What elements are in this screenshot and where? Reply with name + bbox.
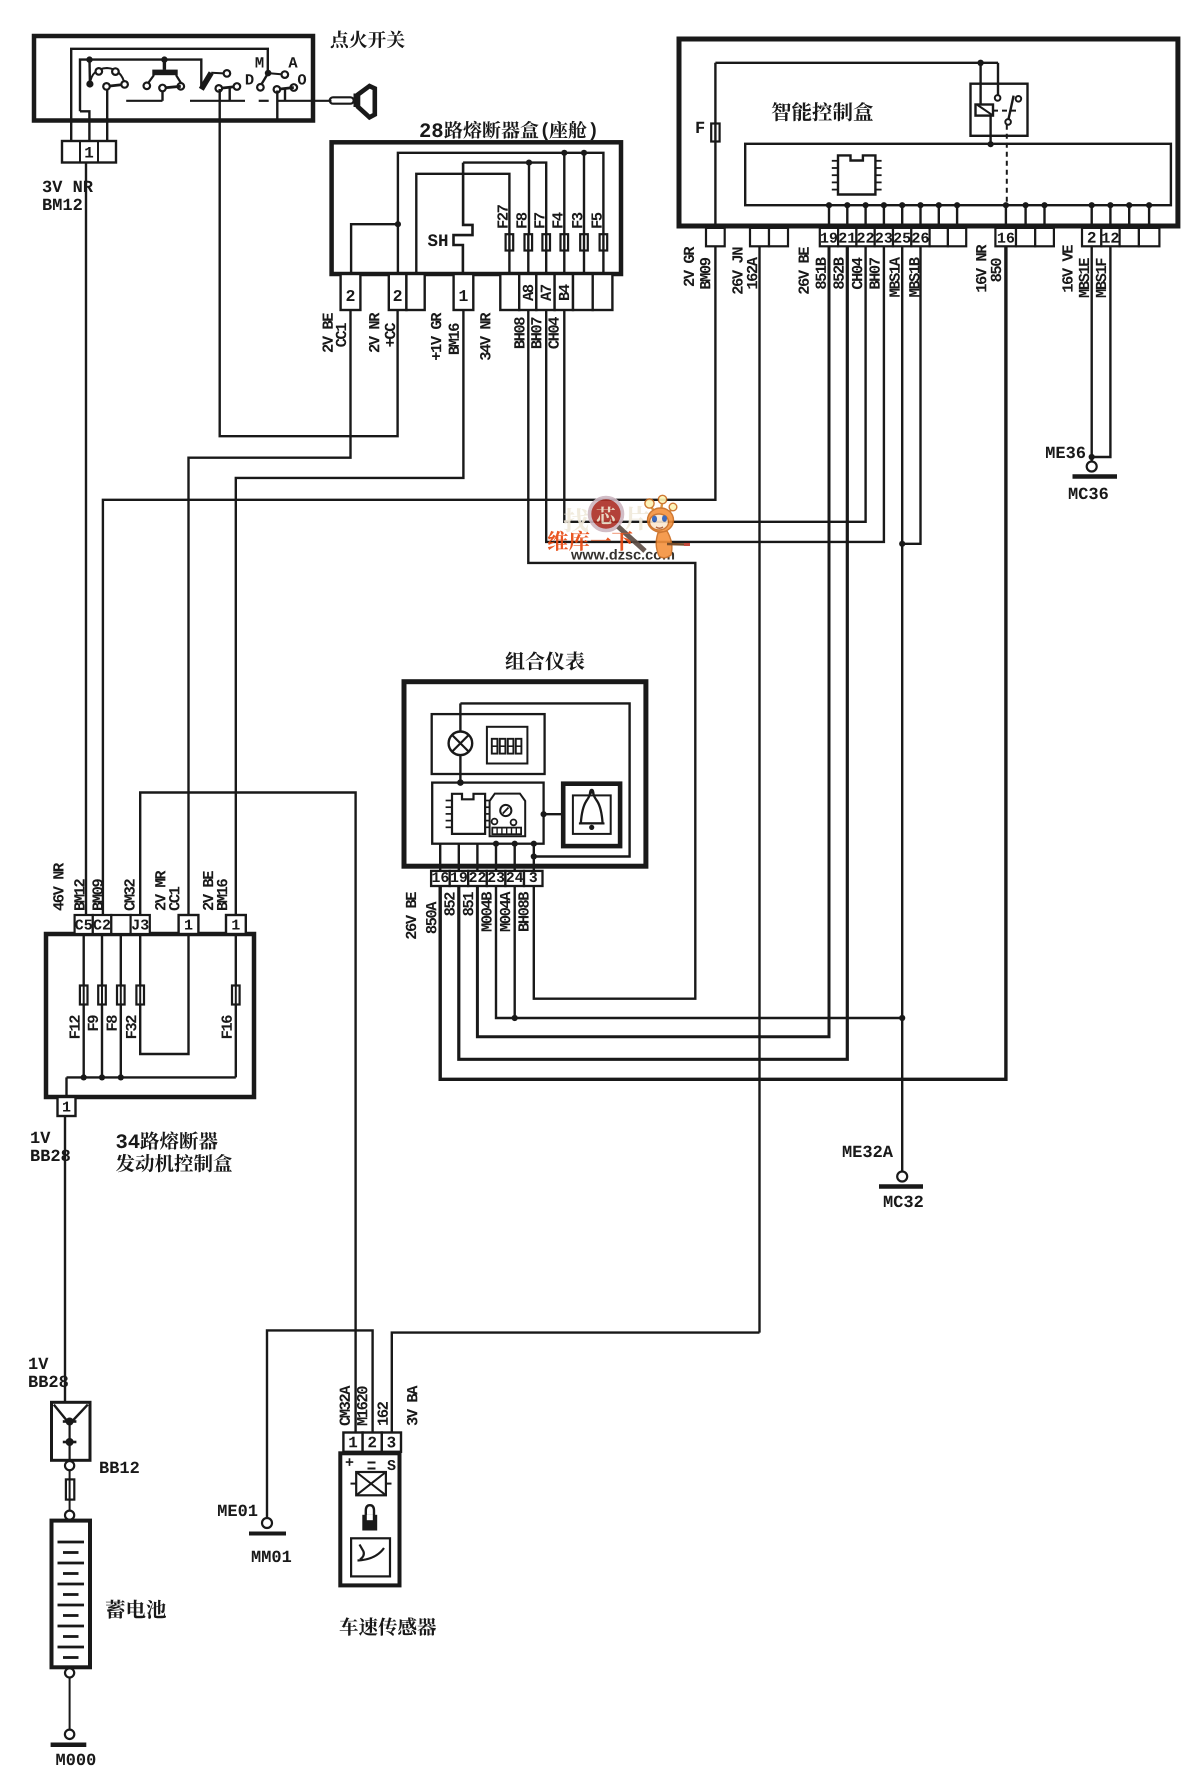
labels M A D O [256,57,264,67]
node MBS1A junction at ground lead [899,1015,905,1021]
wire ME01 to sensor pin 2 [267,1330,373,1517]
label 点火开关 [331,31,348,49]
fuse F8 [527,234,529,274]
ground ME36 [1087,462,1097,472]
node battery top [65,1511,74,1520]
wire switch S4 contact to box frame [276,91,278,121]
watermark dzsc logo [548,495,690,559]
battery [52,1521,91,1668]
pin label B4 [559,284,569,300]
wire 850A cluster to smart box 850 [440,246,1006,1079]
wire 34box BM16 to fuse F16 [235,934,237,986]
node MBS1E MBS1F junction [1089,454,1095,460]
connector pins 19 21 22 23 25 26 of smart box [820,228,838,246]
label 16V VE / MBS1E / MBS1F [1062,245,1073,292]
fuse F16 [235,986,237,1005]
fuse F3 [583,234,585,274]
fuse main [69,1470,71,1510]
wire bus to bottom pin 1 [65,1077,67,1097]
label 组合仪表 [506,652,525,670]
labels below cluster [406,892,417,939]
wire F4 drop [563,153,565,234]
fuse F7 [545,234,547,274]
node relay coil tap [977,60,983,66]
node F3 tap [581,150,587,156]
wire 852 cluster to smart box 852B [459,246,848,1059]
wire 28box internal CC1 branch [351,224,398,274]
cluster upper module box [432,714,545,774]
34-way fuse box / engine control box [46,934,254,1097]
connector bottom pin 1 of 34box [58,1097,76,1116]
fuse F9 [101,986,103,1005]
connector pin 1 CC1 of 34box [179,915,199,934]
ground ME01 [262,1518,272,1528]
switch S4 M-A-D-O [265,70,272,77]
wire CM32 34-way J3 to speed sensor pin 1 [140,793,355,1433]
node F4 tap [561,150,567,156]
connector pin 1 BM16 of 28box [454,274,474,310]
connector pin BM09 of smart box [706,228,725,246]
28-way fuse box (cabin) [332,142,621,274]
ground M000 [65,1730,74,1739]
label MBS1A [889,257,900,297]
relay K1 [971,84,1028,136]
node gauge outputs [493,841,499,847]
IC U1 of smart box [838,155,875,194]
node F8 tap [526,160,532,166]
wire 34box bottom bus [67,1076,236,1078]
label +1V GR / BM16 [431,313,442,361]
wire F3 drop [583,153,585,234]
speedometer symbol [490,794,526,837]
wire BM09 smart box to 34-way box [103,246,716,915]
labels above 34box [53,863,64,911]
bell symbol [581,793,603,824]
connector pin group A8 A7 B4 of 28box [500,274,519,310]
label CH04 [548,317,559,349]
wire M004B M004A cluster to ground net [496,886,902,1018]
instrument cluster (zu he yi biao) [404,682,646,867]
fuse F8 [120,986,122,1005]
wire cluster pins internal [439,844,441,871]
wire 162A smart box to speed sensor pin 3 [758,246,760,1332]
bell / buzzer box [563,784,620,846]
label 智能控制盒 [772,102,791,121]
label 1V BB28 lower [29,1358,37,1369]
label 2V BE / CC1 [322,313,332,352]
fuse F27 [508,234,510,274]
wire F32 loop to CC1 pin [140,934,188,1054]
connector pin 2 +CC of 28box [389,274,407,310]
wire switch S1 output to connector pin right [106,90,108,142]
label 26V JN / 162A [732,248,743,294]
wire coil feed [979,63,981,105]
switch S1 contacts [86,56,92,62]
label 28路熔断器盒(座舱) [420,123,430,137]
wire BB28 34box to battery [64,1116,66,1402]
label 2V NR / +CC [369,313,379,353]
wire +CC 28box to ignition switch S3 [220,89,398,436]
wire battery to ground [69,1678,71,1730]
labels + - S [346,1458,354,1466]
relay coil [976,105,994,116]
connector C5 C2 J3 of 34box [75,915,93,934]
label 蓄电池 [106,1600,125,1619]
lock icon [366,1505,374,1516]
wire MBS1A smart box to ground ME32A [901,246,903,1171]
connector BB12 box [52,1402,91,1460]
connector pins 1 2 3 of sensor [343,1433,362,1452]
wire 34box C2 to fuse F9 [101,934,103,986]
speed sensor box [340,1453,399,1585]
wire 34box blank to fuse F8 [120,934,122,986]
node battery bottom [65,1668,74,1677]
label MBS1B [909,257,920,296]
relay contact circles [995,95,1001,101]
label SH [428,234,438,246]
wire BH07 28box A7 to smart box pin 23 [546,246,884,542]
wire CC1 28box to 34-way box [189,310,351,915]
node M004A junction [512,1015,518,1021]
label 车速传感器 [340,1617,358,1635]
wire coil to bus [989,116,991,145]
smartbox internal pin stubs [826,202,832,208]
ignition switch box (dian huo kai guan) [34,36,313,121]
wire F16 output to bus [235,1005,237,1078]
wire 34box J3 to fuse F32 [139,934,141,986]
switch S3 blade [201,73,211,90]
wire MBS1E MBS1F to ground ME36 [1090,246,1092,457]
IC U2 of cluster [452,794,485,834]
lamp L1 [459,703,461,731]
fuse F32 [139,986,141,1005]
label 34V NR [480,313,491,361]
label BH07 smart [869,258,880,289]
ignition connector block pin 1 [62,141,116,163]
wire 28box internal feed line1 [398,153,604,274]
wire ignition internal bus2 [80,60,201,112]
node lamp to gauge box [457,779,464,786]
label 1V BB28 upper [31,1132,39,1143]
wire F8 drop [528,163,530,235]
node BB12 [65,1461,74,1470]
wire 851 cluster to smart box 851B [477,246,829,1037]
label CH04 smart [852,257,863,289]
wire cluster bell loop [460,703,629,856]
label 3V NR BM12 [43,181,52,193]
digital display [487,727,528,764]
label 34路熔断器 [116,1134,126,1148]
switch S2 [161,56,167,62]
wire 28box internal feed line3 [416,174,509,274]
cluster gauge module box [432,783,543,844]
ground ME32A [897,1172,907,1182]
wire switch S4 stub [284,89,286,101]
connector pins 2 12 of smart box [1082,228,1101,246]
label 2V GR / BM09 [684,247,695,287]
node MBS1A MBS1B junction [899,541,905,547]
smartbox electronics module [745,144,1171,205]
wire switch S3 stub [228,88,230,101]
fuse F5 [602,234,604,274]
connector pins 16 19 22 23 24 3 of cluster [431,871,450,886]
wire relay contact feed [997,63,999,95]
label 发动机控制盒 [116,1154,134,1172]
connector pin 2 CC1 of 28box [341,274,361,310]
labels above sensor [340,1385,351,1425]
node junction +CC/CC1 [395,221,401,227]
wire 28box internal feed line2 with SH link [463,163,546,235]
connector pin 1 BM16 of 34box [226,915,246,934]
connector pin 16 of smart box [995,228,1016,246]
fuse F12 [83,986,85,1005]
mechanical link dashed line [126,100,162,102]
pin label A8 [523,285,534,301]
relay blade [1009,96,1014,120]
node coil-bus junction [988,141,994,147]
connector blank pin of 28box [406,274,424,310]
label F [696,122,704,133]
smart control box (zhi neng kong zhi he) [679,39,1178,226]
wire BM12 ignition to 34-way box [85,163,87,916]
fuse F4 [563,234,565,274]
wire MBS1B smart box joining MBS1A [902,246,920,544]
wire F12 F9 F8 outputs to bus [82,1005,84,1078]
wire 34box C5 to fuse F12 [82,934,84,986]
sensor element symbol [356,1472,386,1495]
wire BM16 28box to 34-way box [236,310,464,915]
wire switch S2 stub to mechanical link [161,91,163,101]
label BH07 [531,318,542,349]
label 852B [833,257,844,289]
label 26V BE 851B [798,247,809,294]
ignition key symbol [330,97,354,103]
pin label A7 [541,285,551,301]
wire ignition internal top bus to switch S4 [71,49,268,141]
wire BH08 28box A8 to cluster pin 3 BH08B [528,310,695,999]
connector pins 162A of smart box [750,228,769,246]
node bell loop to pin3 [531,853,537,859]
wire ignition L-step to connector pin 1 [80,111,89,141]
wire CH04 28box B4 to smart box pin 22 [564,246,865,522]
label BH08 [514,317,525,348]
wire smartbox fuse feed [714,63,716,228]
label 16V NR / 850 [976,245,987,292]
wire gauge to bell [541,811,547,817]
wire smartbox top bus [715,62,998,64]
relay dashed links [993,110,1019,112]
curve icon box [351,1538,390,1576]
